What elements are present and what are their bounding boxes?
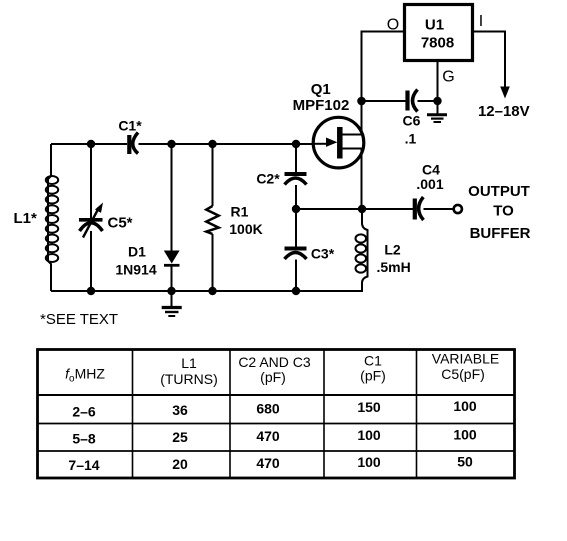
svg-text:(pF): (pF) xyxy=(360,368,386,384)
ground (below C6 node) xyxy=(427,101,447,122)
wire U1 output pin to drain node xyxy=(362,32,405,102)
wire bottom rail xyxy=(51,290,363,292)
wire top rail right segment (C1 to Q1 gate) xyxy=(139,143,314,145)
wire G pin xyxy=(437,61,439,102)
svg-text:1N914: 1N914 xyxy=(115,262,156,278)
svg-text:20: 20 xyxy=(172,456,188,472)
svg-text:100: 100 xyxy=(453,398,477,414)
svg-text:7–14: 7–14 xyxy=(68,457,99,473)
svg-text:C1: C1 xyxy=(364,353,382,369)
wire D1 branch xyxy=(171,144,173,291)
svg-text:U1: U1 xyxy=(425,17,444,34)
IC U1 7808 xyxy=(405,5,473,61)
svg-text:C1*: C1* xyxy=(118,118,142,134)
svg-text:470: 470 xyxy=(256,428,280,444)
svg-text:O: O xyxy=(387,17,399,34)
svg-text:(pF): (pF) xyxy=(260,369,286,385)
transistor Q1 (JFET) xyxy=(313,117,364,168)
table column line 1 xyxy=(132,350,134,479)
svg-text:BUFFER: BUFFER xyxy=(470,225,531,242)
svg-text:5–8: 5–8 xyxy=(72,431,96,447)
svg-text:C5*: C5* xyxy=(108,215,133,232)
svg-text:.1: .1 xyxy=(405,131,417,147)
wire source row xyxy=(296,208,454,210)
node source row C2/C3 junction xyxy=(292,205,300,213)
table column line 2 xyxy=(229,350,231,479)
svg-text:100: 100 xyxy=(357,454,381,470)
svg-text:MPF102: MPF102 xyxy=(293,97,350,114)
capacitor C4 xyxy=(415,197,424,220)
svg-text:L1: L1 xyxy=(181,355,197,371)
svg-text:470: 470 xyxy=(256,455,280,471)
svg-text:VARIABLE: VARIABLE xyxy=(432,351,499,367)
capacitor C6 xyxy=(408,90,418,112)
svg-text:36: 36 xyxy=(172,402,188,418)
resistor R1 xyxy=(206,206,218,234)
variable capacitor C5 xyxy=(79,203,103,238)
inductor L1 xyxy=(46,144,58,291)
svg-text:150: 150 xyxy=(357,399,381,415)
wire C5 branch xyxy=(90,144,92,291)
wire drain node to C6 xyxy=(362,100,407,102)
wire C6 to ground node xyxy=(418,100,438,102)
svg-text:680: 680 xyxy=(256,401,280,417)
svg-text:OUTPUT: OUTPUT xyxy=(468,183,530,200)
wire drain stub xyxy=(342,134,362,136)
supply arrow xyxy=(500,87,510,99)
svg-text:R1: R1 xyxy=(231,204,249,220)
output terminal xyxy=(454,205,462,213)
node top rail C2 junction xyxy=(292,140,300,148)
svg-text:Q1: Q1 xyxy=(311,81,331,98)
svg-text:100: 100 xyxy=(357,427,381,443)
svg-text:100K: 100K xyxy=(229,221,262,237)
node bottom rail C5 junction xyxy=(87,287,95,295)
svg-text:C6: C6 xyxy=(403,113,421,129)
node top rail D1 junction xyxy=(167,140,175,148)
wire top rail left segment (L1 top to C1) xyxy=(51,143,127,145)
node bottom rail D1 junction xyxy=(167,287,175,295)
svg-text:C5(pF): C5(pF) xyxy=(441,366,485,382)
svg-text:TO: TO xyxy=(493,203,514,220)
svg-text:.5mH: .5mH xyxy=(377,259,411,275)
ground (main, below D1) xyxy=(162,291,182,316)
svg-text:100: 100 xyxy=(453,427,477,443)
svg-text:I: I xyxy=(479,13,483,30)
node drain / C6 left junction xyxy=(357,97,366,106)
table row line 1 xyxy=(38,423,515,425)
capacitor C2 xyxy=(285,174,307,185)
wire L2 branch xyxy=(362,209,368,291)
svg-text:(TURNS): (TURNS) xyxy=(160,371,218,387)
node source row L2 junction xyxy=(358,205,366,213)
svg-text:25: 25 xyxy=(172,429,188,445)
svg-text:L2: L2 xyxy=(384,242,401,258)
inductor L2 xyxy=(356,234,367,272)
table column line 4 xyxy=(416,350,418,479)
wire source stub xyxy=(342,148,362,150)
node C6/G junction xyxy=(433,97,441,105)
capacitor C3 xyxy=(285,249,307,260)
diode D1 xyxy=(164,251,180,266)
svg-text:7808: 7808 xyxy=(421,35,454,52)
svg-text:G: G xyxy=(442,69,454,86)
svg-text:C2*: C2* xyxy=(256,171,280,187)
svg-text:*SEE TEXT: *SEE TEXT xyxy=(40,311,118,328)
table row line 2 xyxy=(38,450,515,452)
wire drain up to node xyxy=(361,101,363,135)
node top rail R1 junction xyxy=(208,140,216,148)
wire U1 input pin to supply arrow xyxy=(473,32,506,88)
node bottom rail R1 junction xyxy=(208,287,216,295)
svg-text:2–6: 2–6 xyxy=(72,404,96,420)
svg-text:50: 50 xyxy=(457,454,473,470)
capacitor C1 xyxy=(129,133,138,155)
node bottom rail C3 junction xyxy=(292,287,300,295)
wire C2 branch xyxy=(295,144,297,209)
table column line 3 xyxy=(323,350,325,479)
wire C3 branch xyxy=(295,209,297,291)
svg-text:D1: D1 xyxy=(128,244,146,260)
svg-text:.001: .001 xyxy=(416,176,443,192)
wire R1 branch xyxy=(212,144,214,291)
svg-text:L1*: L1* xyxy=(14,210,38,227)
table frame xyxy=(38,350,515,479)
svg-text:C3*: C3* xyxy=(311,246,335,262)
table header separator xyxy=(38,394,515,396)
node top rail C5 junction xyxy=(87,140,95,148)
wire source down xyxy=(361,149,363,210)
svg-text:C2 AND C3: C2 AND C3 xyxy=(238,354,311,370)
svg-text:12–18V: 12–18V xyxy=(478,103,530,120)
